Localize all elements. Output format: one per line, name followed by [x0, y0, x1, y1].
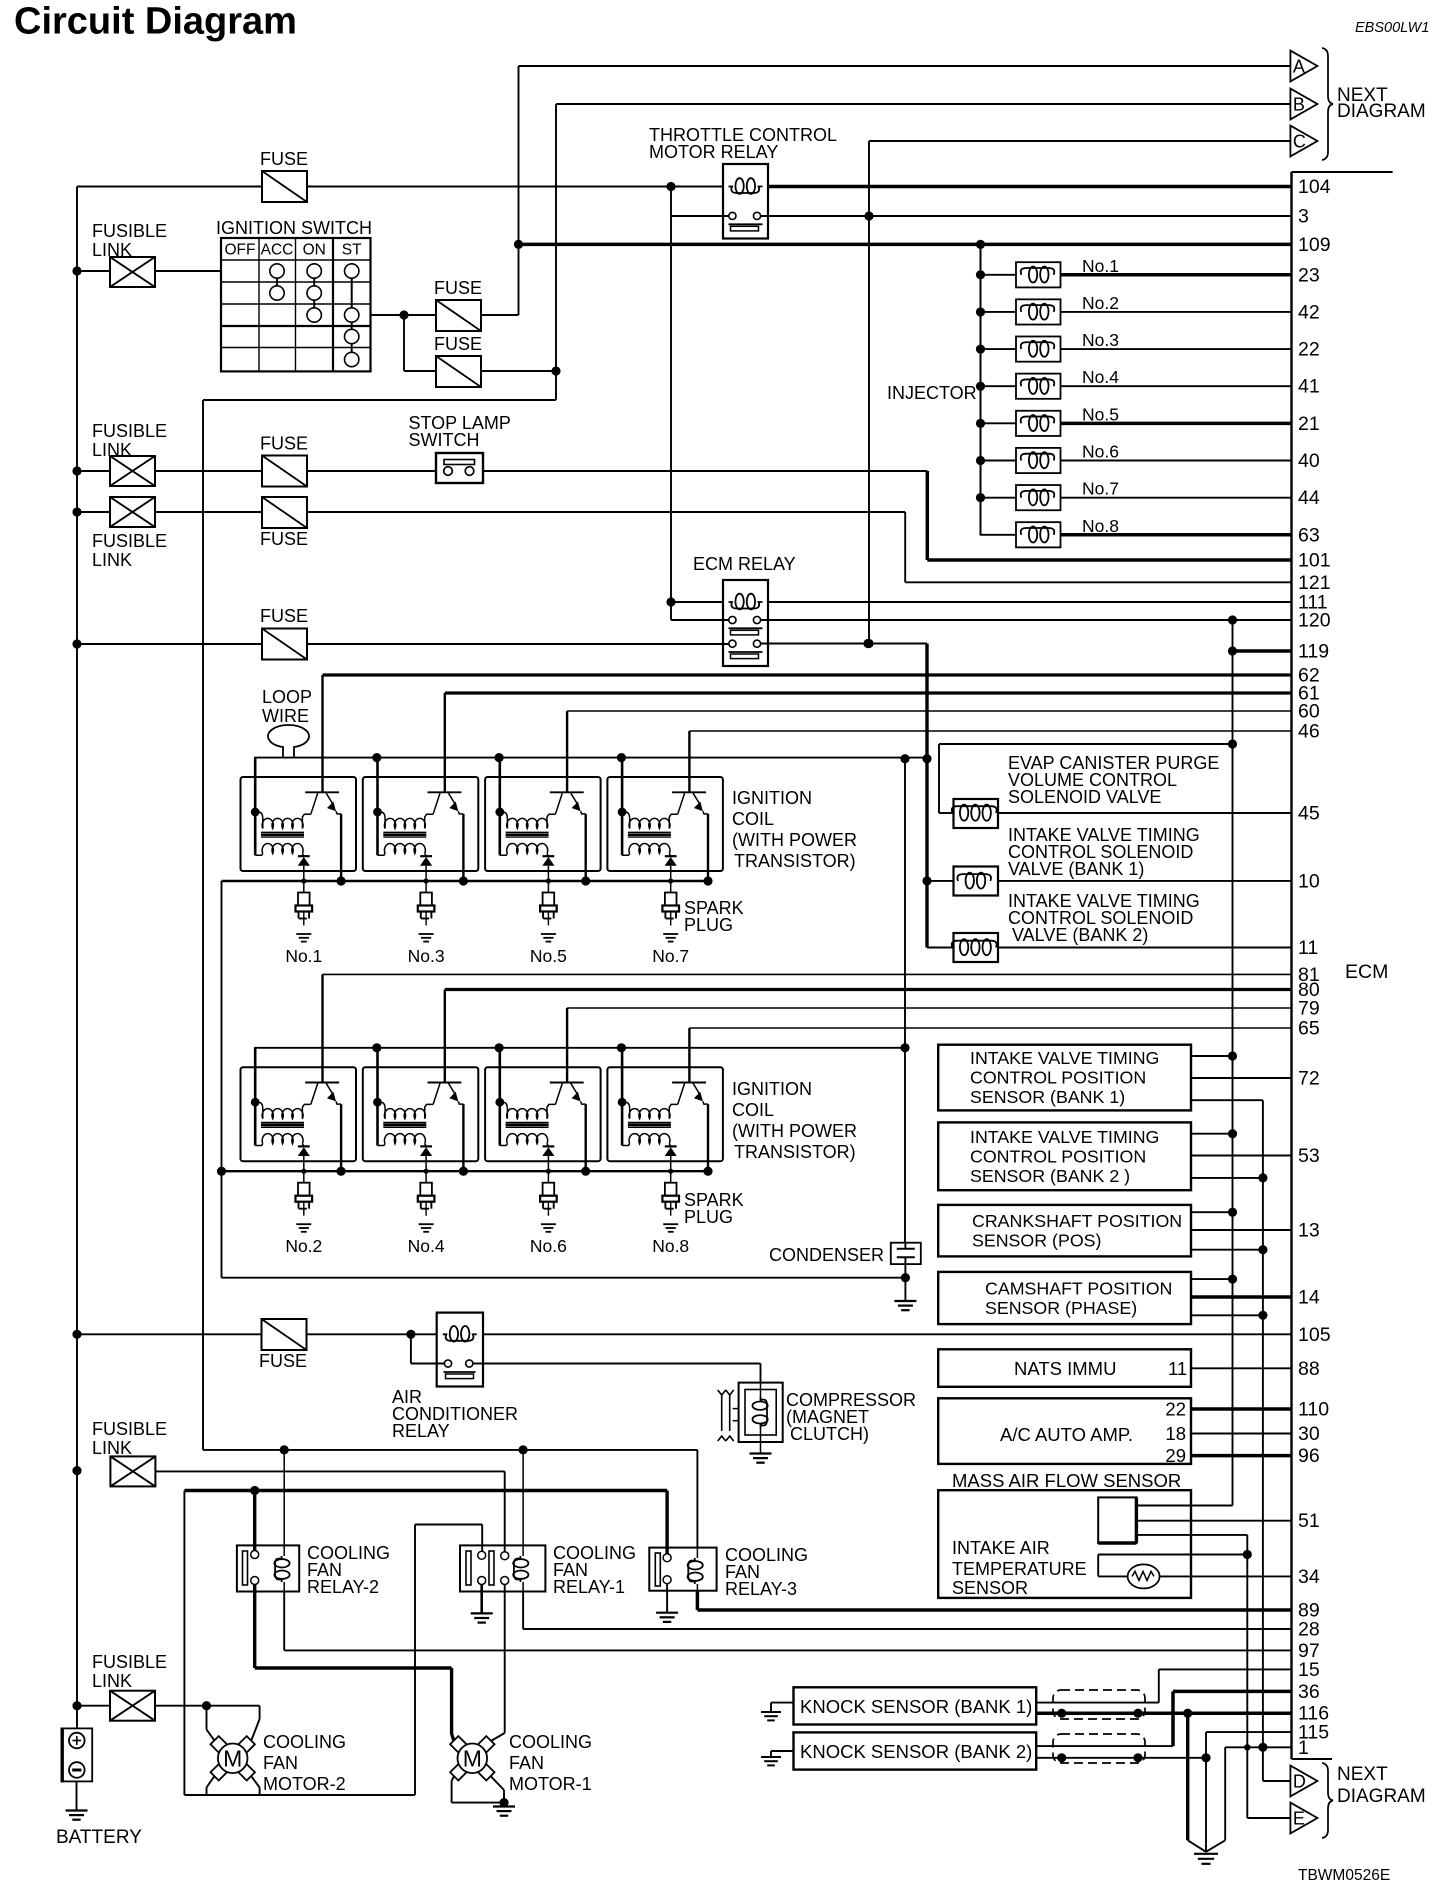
wire cooling fan relay feed thick: [184, 1489, 667, 1492]
svg-text:No.2: No.2: [1082, 293, 1119, 313]
svg-text:60: 60: [1298, 701, 1320, 723]
wire B drop: [555, 104, 557, 400]
wire 97 relay-2 coil to pin: [283, 1592, 285, 1651]
wire relay-1 contact to motor-1: [504, 1585, 506, 1734]
svg-text:No.5: No.5: [1082, 404, 1119, 424]
svg-text:WIRE: WIRE: [262, 706, 309, 726]
ground return group1 emitter bus: [221, 881, 223, 1278]
primary bus riser x905: [904, 759, 906, 1242]
svg-text:MASS AIR FLOW SENSOR: MASS AIR FLOW SENSOR: [952, 1470, 1181, 1491]
ground return wire to condenser: [222, 1277, 906, 1279]
svg-text:M: M: [223, 1745, 242, 1771]
svg-text:RELAY-1: RELAY-1: [553, 1577, 625, 1597]
ignition coil No.4 (with power transistor): [372, 1043, 381, 1052]
svg-text:96: 96: [1298, 1445, 1320, 1467]
ground motor-1: [503, 1803, 505, 1807]
svg-text:46: 46: [1298, 721, 1320, 743]
wire fuse F2 to riser: [482, 314, 519, 316]
wire motor-1 to ground: [452, 1802, 504, 1804]
svg-text:SENSOR: SENSOR: [952, 1578, 1028, 1598]
intake valve timing control solenoid valve bank1: [954, 867, 999, 896]
svg-text:(WITH POWER: (WITH POWER: [732, 830, 857, 850]
svg-text:DIAGRAM: DIAGRAM: [1337, 1786, 1426, 1807]
svg-text:TRANSISTOR): TRANSISTOR): [734, 851, 856, 871]
wire fuse F6 to ECM relay contact: [307, 643, 729, 645]
svg-text:TRANSISTOR): TRANSISTOR): [734, 1142, 856, 1162]
svg-text:23: 23: [1298, 264, 1320, 286]
svg-text:ECM RELAY: ECM RELAY: [693, 554, 796, 574]
cooling fan relay-2: [237, 1545, 299, 1591]
wire intake valve timing control position sensor bank2 stub to bus: [1191, 1133, 1233, 1135]
wire ignition switch ST output: [371, 314, 437, 316]
svg-text:LOOP: LOOP: [262, 687, 312, 707]
svg-text:CLUTCH): CLUTCH): [790, 1424, 869, 1444]
svg-text:FUSE: FUSE: [434, 334, 482, 354]
svg-text:51: 51: [1298, 1510, 1320, 1532]
svg-text:SENSOR (BANK 2 ): SENSOR (BANK 2 ): [970, 1166, 1130, 1186]
fuse F2: [436, 300, 481, 331]
wire A drop / fuse ST riser: [518, 66, 520, 315]
wire fuse F3 to wire B riser: [482, 370, 556, 372]
next-diagram arrow B: [1290, 89, 1317, 120]
svg-text:FUSIBLE: FUSIBLE: [92, 221, 167, 241]
svg-text:79: 79: [1298, 998, 1320, 1020]
svg-text:A: A: [1293, 57, 1305, 77]
wire injector No.1 to pin 23: [1061, 273, 1292, 277]
svg-text:No.4: No.4: [408, 1236, 445, 1256]
ignition coil emitter bus: [222, 1170, 710, 1172]
EVAP canister purge volume control solenoid valve bracket: [939, 743, 1233, 745]
ground bus x1247: [1246, 1535, 1248, 1818]
ignition switch table: [221, 238, 371, 371]
wire 115: [1206, 1731, 1292, 1733]
svg-text:CONTROL POSITION: CONTROL POSITION: [970, 1068, 1146, 1088]
svg-text:22: 22: [1165, 1399, 1186, 1420]
wire crankshaft position sensor (POS) stub to ground bus: [1191, 1249, 1263, 1251]
svg-text:No.3: No.3: [408, 946, 445, 966]
wire battery to fuse F6: [77, 643, 262, 645]
wire ST branch down to fuse F3: [403, 315, 405, 371]
svg-text:FUSIBLE: FUSIBLE: [92, 531, 167, 551]
wire C drop: [868, 141, 870, 644]
svg-text:FUSIBLE: FUSIBLE: [92, 421, 167, 441]
svg-text:FAN: FAN: [263, 1753, 298, 1773]
wire injector No.7 to pin 44: [1061, 497, 1292, 499]
ECM relay U11: [723, 580, 768, 666]
fusible link FL5: [110, 1691, 155, 1721]
fusible link FL1: [110, 257, 155, 287]
svg-text:No.1: No.1: [285, 946, 322, 966]
svg-text:SENSOR (BANK 1): SENSOR (BANK 1): [970, 1087, 1125, 1107]
svg-text:M: M: [463, 1745, 482, 1771]
svg-text:INTAKE AIR: INTAKE AIR: [952, 1538, 1050, 1558]
wire knock2 shield: [1036, 1757, 1206, 1759]
wire injector No.5 to pin 21: [1061, 422, 1292, 426]
wire 1: [1225, 1746, 1291, 1748]
wire relay-2 contact top: [253, 1491, 256, 1551]
throttle control motor relay U10: [723, 164, 768, 239]
svg-text:21: 21: [1298, 413, 1320, 435]
cooling fan motor-1: [450, 1736, 466, 1752]
svg-text:CAMSHAFT POSITION: CAMSHAFT POSITION: [985, 1278, 1172, 1298]
wire 110 A/C amp 22 to pin: [1191, 1407, 1292, 1411]
svg-text:44: 44: [1298, 487, 1320, 509]
wire 65 ignition coil No.8 control: [689, 1027, 1291, 1029]
svg-text:FUSE: FUSE: [259, 1351, 307, 1371]
svg-text:ON: ON: [303, 242, 326, 259]
svg-text:FAN: FAN: [509, 1753, 544, 1773]
svg-text:105: 105: [1298, 1324, 1331, 1346]
crankshaft position sensor (POS): [938, 1205, 1191, 1257]
fuse F4: [262, 456, 307, 487]
wire MAF element to sensor bus: [1136, 1505, 1232, 1507]
wire 11 IVT solenoid bank2 to pin: [998, 947, 1292, 949]
wire to arrow B: [556, 103, 1290, 105]
ground knock sensor bank1: [771, 1702, 794, 1704]
svg-text:88: 88: [1298, 1358, 1320, 1380]
wire injector No.2 to pin 42: [1061, 311, 1292, 313]
wire ECM relay contact2 right to solenoid bus: [761, 643, 927, 645]
ignition coil No.2 (with power transistor): [241, 1067, 357, 1161]
svg-text:11: 11: [1298, 937, 1318, 959]
svg-text:No.3: No.3: [1082, 330, 1119, 350]
MAF hot film element: [1098, 1497, 1136, 1543]
wire camshaft position sensor (PHASE) stub to bus: [1191, 1278, 1233, 1280]
sensor supply bus x1232: [1232, 620, 1234, 1506]
wire fuse F5 to pin 121: [307, 511, 905, 513]
fuse F7: [262, 1319, 307, 1350]
wire 111 ECM relay coil to pin: [768, 601, 1292, 603]
svg-text:LINK: LINK: [92, 550, 132, 570]
wire stop lamp switch to pin 101: [483, 470, 927, 472]
wire 34 IAT sensor to pin: [1160, 1575, 1292, 1577]
fuse F5: [262, 497, 307, 528]
wire relay-2 coil top: [283, 1450, 285, 1546]
svg-text:121: 121: [1298, 572, 1331, 594]
compressor pulley: [718, 1390, 726, 1441]
svg-text:MOTOR-2: MOTOR-2: [263, 1774, 346, 1794]
shielded cable knock2: [1053, 1734, 1145, 1763]
wire 105 battery to AC relay and pin: [77, 1333, 262, 1335]
fusible link FL4: [110, 1456, 155, 1486]
battery: [61, 1728, 92, 1781]
svg-text:104: 104: [1298, 176, 1331, 198]
svg-text:LINK: LINK: [92, 1438, 132, 1458]
svg-text:ECM: ECM: [1345, 961, 1388, 983]
injector No.2: [976, 307, 985, 316]
svg-text:KNOCK SENSOR (BANK 2): KNOCK SENSOR (BANK 2): [800, 1741, 1032, 1762]
wire fuse F4 to stop lamp switch: [307, 470, 436, 472]
cooling fan relay-1: [460, 1545, 545, 1591]
svg-text:DIAGRAM: DIAGRAM: [1337, 101, 1426, 122]
intake valve timing control position sensor bank2: [938, 1122, 1191, 1190]
svg-text:SENSOR (POS): SENSOR (POS): [972, 1230, 1101, 1250]
wire ignition run feed: [203, 399, 556, 401]
svg-text:C: C: [1293, 132, 1306, 152]
mass air flow sensor: [938, 1490, 1191, 1598]
wire cooling fan feed from x203: [203, 1449, 697, 1451]
ground compressor: [750, 1452, 772, 1454]
svg-text:FUSE: FUSE: [260, 529, 308, 549]
svg-text:VALVE (BANK 2): VALVE (BANK 2): [1012, 925, 1148, 945]
wire 13: [1191, 1229, 1292, 1231]
spark plug No.4: [424, 1169, 429, 1174]
svg-text:RELAY-2: RELAY-2: [307, 1577, 379, 1597]
wire AC relay contact to compressor: [473, 1363, 761, 1365]
wire to arrow A: [519, 65, 1291, 67]
spark plug No.3: [424, 878, 429, 883]
wire camshaft position sensor (PHASE) stub to ground bus: [1191, 1314, 1263, 1316]
svg-text:119: 119: [1298, 641, 1329, 663]
wire 120 ECM relay contact1 to pin: [761, 619, 1292, 621]
wire 104 from throttle relay coil to pin: [768, 185, 1292, 189]
wire injector No.3 to pin 22: [1061, 348, 1292, 350]
brace next diagram top: [1322, 48, 1333, 160]
fusible link FL2: [110, 456, 155, 486]
NATS IMMU: [938, 1349, 1191, 1387]
wire FL2 to fuse F4: [77, 470, 110, 472]
air conditioner relay U12: [437, 1313, 483, 1387]
wire FL5 to motor-2: [77, 1705, 110, 1707]
wire throttle relay contact left: [670, 187, 672, 217]
shielded cable knock1: [1053, 1690, 1145, 1719]
svg-text:FUSIBLE: FUSIBLE: [92, 1652, 167, 1672]
wire 15 knock sensor bank1 to pin: [1159, 1668, 1292, 1670]
svg-text:KNOCK SENSOR (BANK 1): KNOCK SENSOR (BANK 1): [800, 1696, 1032, 1717]
wire 79 ignition coil No.6 control: [567, 1007, 1291, 1009]
spark plug No.1: [301, 878, 306, 883]
EVAP canister purge volume control solenoid valve: [954, 799, 999, 828]
ignition coil No.7 (with power transistor): [617, 753, 626, 762]
svg-text:TEMPERATURE: TEMPERATURE: [952, 1559, 1087, 1579]
fuse F1: [262, 171, 307, 202]
svg-text:TBWM0526E: TBWM0526E: [1298, 1867, 1390, 1884]
ground shield funnel: [1194, 1853, 1218, 1855]
motor-2 return loop: [183, 1491, 185, 1796]
svg-text:NATS IMMU: NATS IMMU: [1014, 1358, 1116, 1379]
svg-text:FUSE: FUSE: [434, 278, 482, 298]
wire 53: [1191, 1155, 1292, 1157]
ignition coil No.5 (with power transistor): [495, 753, 504, 762]
wire 80 ignition coil No.4 control: [445, 988, 1292, 991]
svg-text:INTAKE VALVE TIMING: INTAKE VALVE TIMING: [970, 1127, 1159, 1147]
wire relay-1 coil top: [522, 1450, 524, 1546]
wire ECM relay coil left: [670, 216, 672, 602]
svg-text:No.7: No.7: [652, 946, 689, 966]
injector No.5: [976, 419, 985, 428]
wire knock2 signal: [1036, 1745, 1173, 1747]
svg-text:42: 42: [1298, 301, 1320, 323]
wire 36 knock sensor bank2 to pin: [1173, 1690, 1292, 1694]
svg-text:B: B: [1293, 95, 1305, 115]
svg-text:IGNITION: IGNITION: [732, 788, 812, 808]
wire 28 relay-1 coil to pin: [522, 1592, 524, 1630]
stop lamp switch S1: [436, 453, 483, 483]
injector No.7: [976, 493, 985, 502]
ground battery: [76, 1781, 78, 1810]
svg-text:36: 36: [1298, 1681, 1320, 1703]
svg-text:COOLING: COOLING: [263, 1732, 346, 1752]
svg-text:IGNITION SWITCH: IGNITION SWITCH: [216, 218, 372, 238]
shield ground funnel: [1186, 1713, 1189, 1840]
solenoid feed bus: [925, 644, 928, 948]
wire 45 EVAP solenoid to pin: [998, 812, 1292, 814]
wire 46 ignition coil No.7 control: [689, 730, 1291, 732]
svg-text:D: D: [1293, 1772, 1306, 1792]
ignition switch contacts ACC: [270, 264, 284, 278]
svg-text:109: 109: [1298, 234, 1331, 256]
svg-text:FUSE: FUSE: [260, 149, 308, 169]
svg-text:110: 110: [1298, 1399, 1329, 1421]
ignition coil No.1 (with power transistor): [241, 777, 357, 871]
wire 116 knock1 shield: [1036, 1711, 1291, 1715]
ignition coil No.3 (with power transistor): [372, 753, 381, 762]
svg-text:10: 10: [1298, 870, 1320, 892]
svg-text:72: 72: [1298, 1068, 1320, 1090]
svg-text:SENSOR (PHASE): SENSOR (PHASE): [985, 1298, 1137, 1318]
svg-text:No.5: No.5: [530, 946, 567, 966]
svg-text:13: 13: [1298, 1220, 1320, 1242]
spark plug No.7: [668, 878, 673, 883]
wire intake valve timing control position sensor bank2 stub to ground bus: [1191, 1177, 1263, 1179]
svg-text:18: 18: [1165, 1423, 1186, 1444]
fuse F3: [436, 356, 481, 387]
svg-text:29: 29: [1165, 1445, 1186, 1466]
svg-text:INTAKE VALVE TIMING: INTAKE VALVE TIMING: [970, 1048, 1159, 1068]
svg-text:30: 30: [1298, 1423, 1320, 1445]
svg-text:ACC: ACC: [261, 242, 294, 259]
fusible link FL3: [110, 497, 155, 527]
wire 51 MAF to pin: [1136, 1520, 1291, 1522]
knock sensor (bank 1): [794, 1687, 1037, 1724]
left bus vertical from battery: [76, 187, 78, 1729]
next-diagram arrow E: [1290, 1803, 1317, 1834]
svg-text:63: 63: [1298, 524, 1320, 546]
svg-text:FUSIBLE: FUSIBLE: [92, 1419, 167, 1439]
spark plug No.8: [668, 1169, 673, 1174]
ground relay-3 contact: [666, 1584, 668, 1613]
wire 72: [1191, 1077, 1292, 1079]
wire injector No.6 to pin 40: [1061, 460, 1292, 462]
svg-text:34: 34: [1298, 1566, 1320, 1588]
wire 89 relay-3 coil to pin: [696, 1591, 700, 1610]
injector No.3: [976, 344, 985, 353]
svg-text:VALVE (BANK 1): VALVE (BANK 1): [1008, 859, 1144, 879]
svg-text:Circuit Diagram: Circuit Diagram: [14, 1, 297, 43]
wire 88 NATS IMMU to pin: [1191, 1367, 1292, 1369]
wire 81 ignition coil No.2 control: [323, 973, 1292, 975]
svg-text:No.8: No.8: [652, 1236, 689, 1256]
injector feed bus: [980, 244, 982, 535]
cooling fan relay-3: [649, 1548, 716, 1591]
svg-text:No.1: No.1: [1082, 256, 1119, 276]
A/C AUTO AMP: [938, 1398, 1191, 1464]
injector No.1: [976, 270, 985, 279]
wire FL1 to ignition switch: [77, 270, 110, 272]
wire injector No.4 to pin 41: [1061, 385, 1292, 387]
svg-text:40: 40: [1298, 450, 1320, 472]
svg-text:RELAY-3: RELAY-3: [725, 1579, 797, 1599]
svg-text:CONTROL POSITION: CONTROL POSITION: [970, 1146, 1146, 1166]
intake air temperature sensor element: [1243, 1550, 1252, 1559]
wire 96 A/C amp 29 to pin: [1191, 1454, 1292, 1458]
svg-text:11: 11: [1168, 1358, 1187, 1379]
svg-text:CONDENSER: CONDENSER: [769, 1245, 884, 1265]
svg-text:MOTOR-1: MOTOR-1: [509, 1774, 592, 1794]
svg-text:COIL: COIL: [732, 809, 774, 829]
injector No.4: [976, 382, 985, 391]
svg-text:IGNITION: IGNITION: [732, 1079, 812, 1099]
svg-text:89: 89: [1298, 1600, 1320, 1622]
next-diagram arrow A: [1290, 51, 1317, 82]
wire crankshaft position sensor (POS) stub to bus: [1191, 1211, 1233, 1213]
svg-text:28: 28: [1298, 1619, 1320, 1641]
wire FL4 to cooling fan relay-1: [155, 1470, 505, 1472]
ground condenser: [904, 1278, 906, 1301]
svg-text:COOLING: COOLING: [509, 1732, 592, 1752]
svg-text:1: 1: [1298, 1737, 1309, 1759]
left vertical bus x203: [202, 400, 204, 1450]
wire injector No.8 to pin 63: [1061, 533, 1292, 537]
svg-text:OFF: OFF: [225, 242, 256, 259]
svg-text:101: 101: [1298, 550, 1331, 572]
wire 62 ignition coil No.1 control: [323, 673, 1292, 676]
ignition switch contacts ST: [345, 264, 359, 278]
svg-text:No.6: No.6: [530, 1236, 567, 1256]
svg-text:INJECTOR: INJECTOR: [887, 383, 977, 403]
svg-text:NEXT: NEXT: [1337, 1764, 1388, 1785]
wire knock1 signal: [1036, 1702, 1159, 1704]
svg-text:E: E: [1293, 1809, 1305, 1829]
spark plug No.5: [546, 878, 551, 883]
condenser C1: [891, 1243, 921, 1264]
wire FL3 to fuse F5: [77, 511, 110, 513]
wire 14: [1191, 1295, 1292, 1299]
svg-text:No.6: No.6: [1082, 442, 1119, 462]
knock sensor (bank 2): [794, 1732, 1037, 1769]
ignition coil emitter bus: [222, 880, 710, 882]
ignition coil No.6 (with power transistor): [495, 1043, 504, 1052]
svg-text:FUSE: FUSE: [260, 606, 308, 626]
ignition coil primary bus: [254, 1047, 905, 1049]
wire 109: [519, 243, 1292, 247]
wire MAF element to ground bus x1247: [1136, 1534, 1247, 1536]
svg-text:SWITCH: SWITCH: [409, 430, 480, 450]
svg-text:COIL: COIL: [732, 1100, 774, 1120]
svg-text:3: 3: [1298, 206, 1309, 228]
svg-text:LINK: LINK: [92, 1671, 132, 1691]
ignition switch contacts ON: [307, 264, 321, 278]
ECM connector line: [1290, 172, 1292, 1759]
svg-text:22: 22: [1298, 339, 1320, 361]
spark plug No.2: [301, 1169, 306, 1174]
wire 3 throttle relay contact to pin: [761, 215, 1292, 217]
svg-text:120: 120: [1298, 610, 1331, 632]
fuse F6: [262, 629, 307, 660]
svg-text:EBS00LW1: EBS00LW1: [1355, 20, 1429, 36]
sensor ground bus x1262: [1262, 1100, 1264, 1781]
svg-text:SOLENOID VALVE: SOLENOID VALVE: [1008, 787, 1161, 807]
wire 60 ignition coil No.5 control: [567, 710, 1291, 712]
svg-text:CRANKSHAFT POSITION: CRANKSHAFT POSITION: [972, 1211, 1182, 1231]
svg-text:(WITH POWER: (WITH POWER: [732, 1121, 857, 1141]
wire battery feed top: [77, 186, 262, 188]
wire relay-3 coil top: [696, 1450, 698, 1548]
wire to arrow C: [869, 140, 1290, 142]
intake valve timing control position sensor bank1: [938, 1045, 1191, 1111]
next-diagram arrow C: [1290, 126, 1317, 157]
wire ECM relay contact1 left: [670, 602, 672, 620]
